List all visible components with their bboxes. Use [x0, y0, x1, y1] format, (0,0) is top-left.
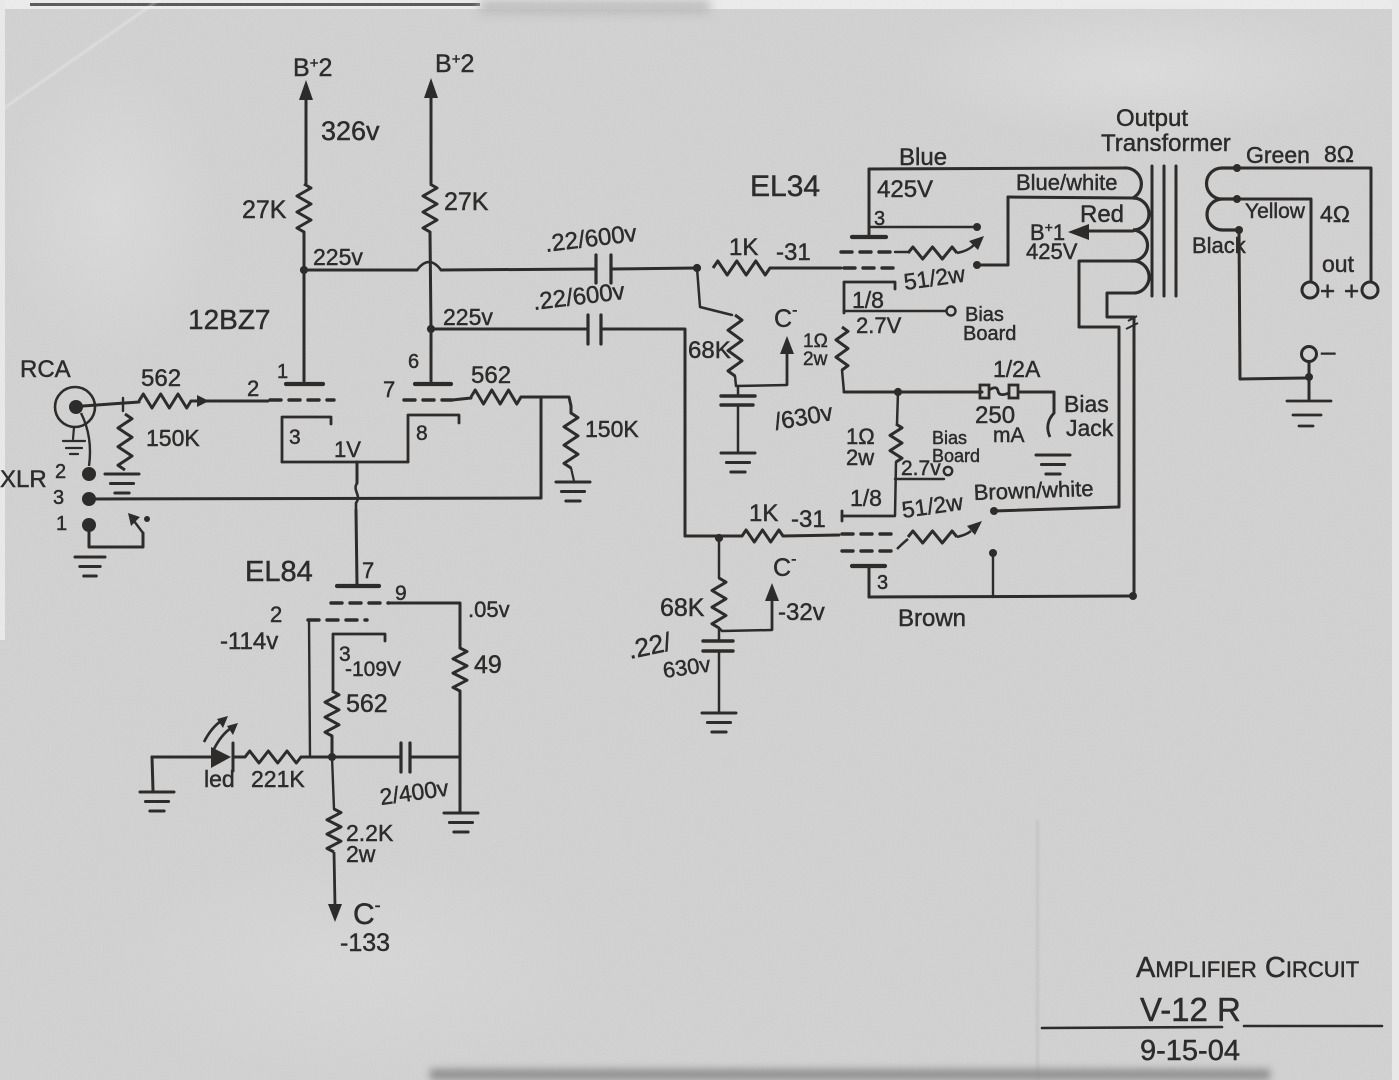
label C- lower	[773, 551, 796, 582]
ground bias jack	[1036, 455, 1070, 474]
svg-text:Bias: Bias	[1064, 391, 1109, 417]
label 12BZ7	[188, 304, 271, 335]
EL34 bottom cathode bracket	[842, 511, 894, 521]
12BZ7 triodeB grid pin7 label	[383, 377, 395, 402]
cathode common bottom	[282, 461, 408, 464]
svg-text:2: 2	[270, 602, 282, 627]
wire g2 to 49	[391, 603, 460, 648]
switch contact brown-white	[990, 507, 998, 515]
ground cap630 upper	[721, 453, 755, 472]
led symbol	[211, 743, 233, 771]
label 2.7V top	[856, 313, 902, 338]
label 562 second	[471, 362, 511, 389]
label C- el84	[353, 895, 381, 931]
wire 49 to node	[459, 691, 462, 812]
label 1ohm 2w bottom	[846, 424, 875, 470]
12BZ7 triodeB grid dashed	[404, 398, 452, 401]
wire brown row	[869, 596, 1133, 597]
ground led	[140, 792, 174, 811]
svg-text:49: 49	[474, 651, 502, 679]
node cathode junction	[328, 753, 336, 761]
svg-text:V-12 R: V-12 R	[1140, 991, 1241, 1028]
12BZ7 triodeB plate	[415, 382, 451, 386]
label 562 input	[141, 365, 181, 392]
wire led to 221K	[233, 756, 245, 759]
wire dash to 562	[452, 398, 471, 400]
switch contact blue-white	[973, 261, 981, 269]
wire 562 to 150K	[521, 397, 571, 413]
ground 49	[444, 813, 478, 832]
label 51/2w bottom	[900, 489, 965, 523]
resistor 1K upper	[713, 261, 770, 275]
junction tick 150K	[122, 398, 124, 411]
secondary winding	[1207, 168, 1240, 230]
wire brown-white	[994, 507, 1118, 511]
label /630v	[772, 399, 835, 436]
EL34 top cathode bracket	[844, 282, 895, 313]
EL84 plate	[337, 584, 379, 588]
wire 562 to node	[331, 736, 334, 757]
capacitor 2/400v	[401, 743, 410, 772]
svg-text:8Ω: 8Ω	[1324, 141, 1354, 167]
switch contact plate	[973, 223, 981, 231]
label .05v	[468, 597, 510, 622]
resistor 221K	[245, 751, 301, 763]
ground cap630 lower	[702, 713, 736, 732]
ground 150K second	[556, 482, 590, 501]
primary winding	[1124, 168, 1149, 293]
label 1/8 top	[852, 287, 884, 313]
label 425V red	[1026, 239, 1078, 264]
label Bias Jack	[1064, 391, 1114, 441]
EL34 top g1 dashed	[844, 266, 897, 269]
switch contact brown	[989, 549, 997, 557]
svg-text:RCA: RCA	[20, 356, 71, 383]
svg-text:1: 1	[277, 361, 288, 383]
label Board top	[963, 323, 1016, 345]
EL84 pin2 label	[270, 602, 282, 627]
svg-text:27K: 27K	[242, 196, 287, 224]
label Bias top	[965, 304, 1004, 326]
C- arrow lower	[765, 583, 779, 630]
svg-text:1V: 1V	[334, 437, 361, 462]
svg-text:Blue: Blue	[899, 144, 947, 171]
label Bias bottom	[932, 428, 967, 448]
label Blue-white	[1016, 170, 1118, 195]
label 1V	[334, 437, 361, 462]
svg-text:562: 562	[346, 690, 388, 718]
title date	[1140, 1035, 1240, 1067]
label 221K	[251, 766, 305, 792]
label B+1	[1030, 219, 1065, 245]
label 630v lower	[661, 652, 712, 683]
resistor 49	[453, 648, 467, 691]
wire 225V right to cap2	[431, 328, 587, 331]
svg-text:1/8: 1/8	[852, 287, 884, 313]
label EL34	[750, 170, 820, 203]
svg-text:2w: 2w	[346, 841, 376, 867]
label 250mA	[975, 402, 1025, 447]
wire 1K to g1 lower	[783, 535, 839, 536]
terminal 0minus	[1302, 336, 1337, 366]
wire 1K to EL34 g1	[770, 267, 841, 270]
svg-text:2.7v: 2.7v	[901, 457, 941, 480]
svg-text:+: +	[1344, 276, 1359, 306]
svg-text:-31: -31	[791, 506, 826, 533]
B+2 arrow right	[424, 78, 438, 184]
wire plate row with hop	[304, 262, 595, 270]
XLR pin3 terminal	[82, 492, 96, 506]
resistor 2.2K	[327, 809, 341, 852]
svg-text:326v: 326v	[321, 116, 380, 146]
12BZ7 triodeA plate	[286, 270, 323, 384]
label -109V	[345, 658, 401, 681]
wire yellow	[1237, 199, 1311, 281]
svg-text:150K: 150K	[585, 416, 639, 442]
wire fuse row	[844, 391, 982, 394]
wire node to 68K upper	[697, 268, 732, 315]
svg-text:out: out	[1322, 251, 1355, 277]
wire black	[1239, 230, 1305, 379]
ground output	[1287, 401, 1331, 426]
svg-text:1: 1	[56, 513, 67, 535]
svg-text:562: 562	[471, 362, 511, 389]
resistor 1ohm bottom	[890, 424, 902, 462]
label Brown	[898, 605, 966, 632]
label -32v	[778, 599, 825, 626]
svg-text:Bias: Bias	[932, 428, 967, 448]
svg-text:27K: 27K	[444, 188, 489, 216]
resistor 562 input	[139, 394, 191, 408]
svg-text:Brown: Brown	[898, 605, 966, 632]
node brown right	[1129, 592, 1137, 600]
svg-text:led: led	[204, 766, 235, 792]
resistor 562 second	[471, 390, 521, 404]
EL34 bottom plate	[852, 564, 885, 568]
svg-text:EL34: EL34	[750, 170, 820, 203]
EL34 bottom plate pin3 label	[877, 572, 888, 594]
XLR pin1 label	[56, 513, 67, 535]
resistor 150K input	[118, 414, 132, 470]
svg-text:3: 3	[877, 572, 888, 594]
label RCA	[20, 356, 71, 383]
transformer core	[1152, 166, 1176, 296]
label 1ohm 2w upper	[803, 331, 828, 370]
bias jack contact	[1048, 413, 1054, 437]
wire RCA to 562	[83, 402, 139, 406]
svg-text:Green: Green	[1246, 142, 1310, 168]
label Output	[1116, 105, 1188, 132]
resistor 150K second	[564, 413, 578, 468]
label 562 cathode	[346, 690, 388, 718]
resistor 51/2w top	[895, 236, 984, 259]
EL34 bottom g1 dashed	[842, 532, 895, 535]
label -133	[340, 929, 390, 957]
node top 68K junction	[693, 264, 701, 272]
wire 27K right down to plate	[430, 232, 431, 381]
svg-text:Blue/white: Blue/white	[1016, 170, 1118, 195]
svg-text:Jack: Jack	[1066, 415, 1114, 441]
label 68K lower	[660, 594, 705, 622]
XLR pin2 label	[55, 461, 66, 483]
wire green	[1237, 168, 1371, 281]
svg-text:221K: 221K	[251, 766, 305, 792]
label Blue	[899, 144, 947, 171]
resistor 27K left	[297, 184, 311, 232]
wire blue-white drop	[977, 197, 1008, 265]
svg-text:Output: Output	[1116, 105, 1188, 132]
RCA ground	[63, 441, 85, 454]
wire cap to EL34 grid node	[611, 268, 697, 269]
svg-text:Board: Board	[963, 323, 1016, 345]
svg-text:XLR: XLR	[0, 466, 47, 493]
svg-text:EL84: EL84	[245, 556, 313, 588]
wire fuse to jack	[1019, 392, 1054, 413]
label Red	[1080, 201, 1124, 228]
label 2.2K	[346, 820, 394, 846]
wire XLR1 down	[89, 530, 143, 547]
svg-text:2.7V: 2.7V	[856, 313, 902, 338]
terminal plus left	[1302, 276, 1335, 306]
label .22/ lower	[625, 626, 674, 665]
label 1/2A	[993, 356, 1041, 382]
label -114v	[220, 628, 278, 655]
label led	[204, 766, 235, 792]
wire blue top	[869, 168, 1124, 237]
label 68K upper	[688, 337, 731, 364]
label 2.7v bottom	[901, 457, 941, 480]
wire cap to 49 node	[410, 756, 460, 759]
wire blue-white tap	[1008, 197, 1133, 198]
wire cathode tap with hop	[356, 462, 358, 585]
svg-text:-31: -31	[776, 239, 811, 266]
svg-text:mA: mA	[993, 424, 1025, 447]
svg-text:6: 6	[408, 351, 419, 373]
12BZ7 plate pin6 label	[408, 351, 419, 373]
svg-text:-32v: -32v	[778, 599, 825, 626]
wire plate to brown	[868, 566, 871, 597]
EL84 cathode bracket pin3	[333, 634, 385, 691]
svg-text:225v: 225v	[313, 244, 363, 270]
wire plate to switch dot	[870, 226, 973, 228]
wire 150K to gnd	[571, 468, 574, 481]
label 2/400v	[378, 775, 450, 810]
node 225v junction	[300, 266, 308, 274]
label Green 8ohm	[1246, 141, 1354, 168]
label 225V right	[443, 304, 493, 330]
label XLR	[0, 466, 47, 493]
svg-text:2: 2	[55, 461, 66, 483]
svg-text:Red: Red	[1080, 201, 1124, 228]
wire 0minus to gnd	[1308, 363, 1311, 399]
svg-text:425V: 425V	[877, 176, 933, 203]
capacitor .22/630 lower	[703, 628, 733, 712]
resistor 68K upper	[728, 315, 742, 376]
wire corner to 1K	[685, 535, 742, 538]
label B+2 right	[435, 50, 474, 78]
C- arrow upper	[780, 336, 794, 385]
node fuse row junction	[894, 388, 902, 396]
svg-text:1K: 1K	[729, 234, 758, 261]
12BZ7 plate pin1 label	[277, 361, 288, 383]
terminal plus right	[1344, 276, 1378, 306]
fuse 1/2A	[980, 385, 1018, 398]
resistor 562 cathode	[325, 691, 339, 736]
svg-text:Transformer: Transformer	[1101, 130, 1231, 157]
svg-text:2: 2	[247, 376, 259, 401]
XLR pin3 label	[53, 487, 64, 509]
EL84 plate pin7 label	[362, 558, 374, 583]
label -31 upper	[776, 239, 811, 266]
ground switch arrow	[128, 513, 143, 533]
node lower 68K junction	[715, 534, 723, 542]
capacitor .22/630 upper	[721, 386, 755, 452]
label Brown-white	[973, 476, 1094, 505]
label pin3	[289, 426, 301, 449]
wire 68K to arrow	[735, 376, 787, 386]
wire cathode to fuse row	[842, 370, 844, 392]
wire fuse node down	[897, 392, 898, 424]
ground switch contact	[144, 516, 150, 522]
svg-text:-133: -133	[340, 929, 390, 957]
label 49	[474, 651, 502, 679]
svg-text:562: 562	[141, 365, 181, 392]
label 225v	[313, 244, 363, 270]
svg-text:Yellow: Yellow	[1245, 200, 1306, 223]
resistor 68K lower	[712, 578, 726, 628]
EL84 pin9 label	[395, 582, 407, 605]
label 1K upper	[729, 234, 758, 261]
svg-text:1/2A: 1/2A	[993, 356, 1041, 382]
label pin8	[416, 422, 428, 445]
node 225V right junction	[427, 325, 435, 333]
hop mark	[1126, 316, 1138, 329]
svg-text:150K: 150K	[146, 425, 200, 451]
wire XLR2 tie	[81, 413, 90, 466]
svg-text:68K: 68K	[660, 594, 705, 622]
label 1/8 bottom	[850, 485, 882, 511]
svg-text:12BZ7: 12BZ7	[188, 304, 271, 335]
svg-text:2w: 2w	[803, 349, 828, 370]
label cap .22/600v upper	[543, 220, 638, 258]
label Yellow	[1245, 200, 1306, 223]
label 4ohm	[1320, 201, 1350, 227]
wire 2.7V to bias board	[844, 310, 946, 312]
wire led row	[152, 756, 211, 759]
bias board terminal top	[947, 307, 956, 316]
wire brown contact down	[992, 553, 994, 597]
ground led left stem	[152, 757, 153, 790]
label 326v	[321, 116, 380, 146]
wire g1 down	[309, 620, 310, 757]
ground XLR1	[75, 557, 105, 576]
wire 1ohm to cathode	[895, 462, 896, 516]
resistor 51/2w bottom	[897, 521, 982, 549]
label 2w	[346, 841, 376, 867]
12BZ7 triodeA grid dashed	[270, 398, 334, 401]
EL84 g2 pin9 dashed	[331, 601, 389, 604]
EL34 top plate	[852, 235, 886, 239]
svg-text:9-15-04: 9-15-04	[1140, 1035, 1240, 1067]
node 0minus	[1305, 373, 1313, 381]
label -31 lower	[791, 506, 826, 533]
resistor 1K lower	[742, 530, 783, 542]
svg-text:-114v: -114v	[220, 628, 278, 655]
resistor 1ohm top	[836, 327, 848, 370]
XLR pin2 terminal	[82, 467, 96, 481]
12BZ7 triodeA grid pin2 label	[247, 376, 259, 401]
EL34 top plate pin3 label	[874, 208, 885, 230]
svg-text:.05v: .05v	[468, 597, 510, 622]
wire 2.7v lower	[895, 478, 944, 480]
svg-text:-109V: -109V	[345, 658, 401, 681]
wire brown-white riser	[1079, 261, 1131, 507]
label 150K second	[585, 416, 639, 442]
12BZ7 triodeB cathode bracket pin8	[408, 415, 459, 462]
XLR pin1 terminal	[82, 518, 96, 532]
label out	[1322, 251, 1355, 277]
svg-text:AMPLIFIER CIRCUIT: AMPLIFIER CIRCUIT	[1136, 952, 1359, 984]
label B+2 left	[293, 54, 332, 82]
title rule	[1042, 1026, 1382, 1028]
red tap arrow	[1068, 224, 1133, 240]
title Amplifier Circuit	[1136, 952, 1359, 984]
capacitor .22/600v lower	[588, 315, 601, 344]
wire 27K to node	[303, 232, 306, 271]
resistor 27K right	[423, 184, 437, 232]
label EL84 pin3	[339, 643, 351, 666]
secondary tap dots	[1233, 164, 1243, 234]
wire brown riser	[1107, 293, 1135, 596]
svg-text:+: +	[1320, 276, 1335, 306]
svg-text:225v: 225v	[443, 304, 493, 330]
svg-text:1/8: 1/8	[850, 485, 882, 511]
wire node to 68K lower	[718, 538, 721, 578]
svg-text:4Ω: 4Ω	[1320, 201, 1350, 227]
RCA jack	[55, 387, 95, 427]
EL84 g1 pin2 dashed	[308, 618, 367, 621]
label cap .22/600v lower	[531, 278, 626, 316]
svg-text:–: –	[1321, 336, 1336, 366]
EL34 top g2 dashed	[841, 250, 895, 253]
svg-text:2w: 2w	[846, 445, 874, 470]
label C- upper	[774, 302, 797, 333]
bias board terminal bottom	[944, 467, 952, 475]
C- arrow down	[328, 852, 342, 922]
label Transformer	[1101, 130, 1231, 157]
ground 150K input	[105, 474, 139, 493]
label 1K lower	[749, 500, 778, 527]
wire 221K to cap	[301, 756, 400, 759]
label 425V blue	[877, 176, 933, 203]
capacitor .22/600v upper	[596, 255, 611, 283]
label 51/2w top	[902, 261, 967, 295]
svg-text:1K: 1K	[749, 500, 778, 527]
label Black	[1192, 233, 1247, 258]
wire XLR3 long	[95, 498, 541, 499]
svg-text:8: 8	[416, 422, 428, 445]
label EL84	[245, 556, 313, 588]
svg-text:7: 7	[383, 377, 395, 402]
wire node to 2.2K	[332, 757, 334, 809]
label 150K input	[146, 425, 200, 451]
wire 68K lower to arrow	[719, 628, 772, 631]
label 27K left	[242, 196, 287, 224]
12BZ7 triodeA cathode bracket pin3	[282, 417, 331, 462]
svg-text:425V: 425V	[1026, 239, 1078, 264]
svg-text:3: 3	[289, 426, 301, 449]
led arrows	[204, 716, 238, 749]
